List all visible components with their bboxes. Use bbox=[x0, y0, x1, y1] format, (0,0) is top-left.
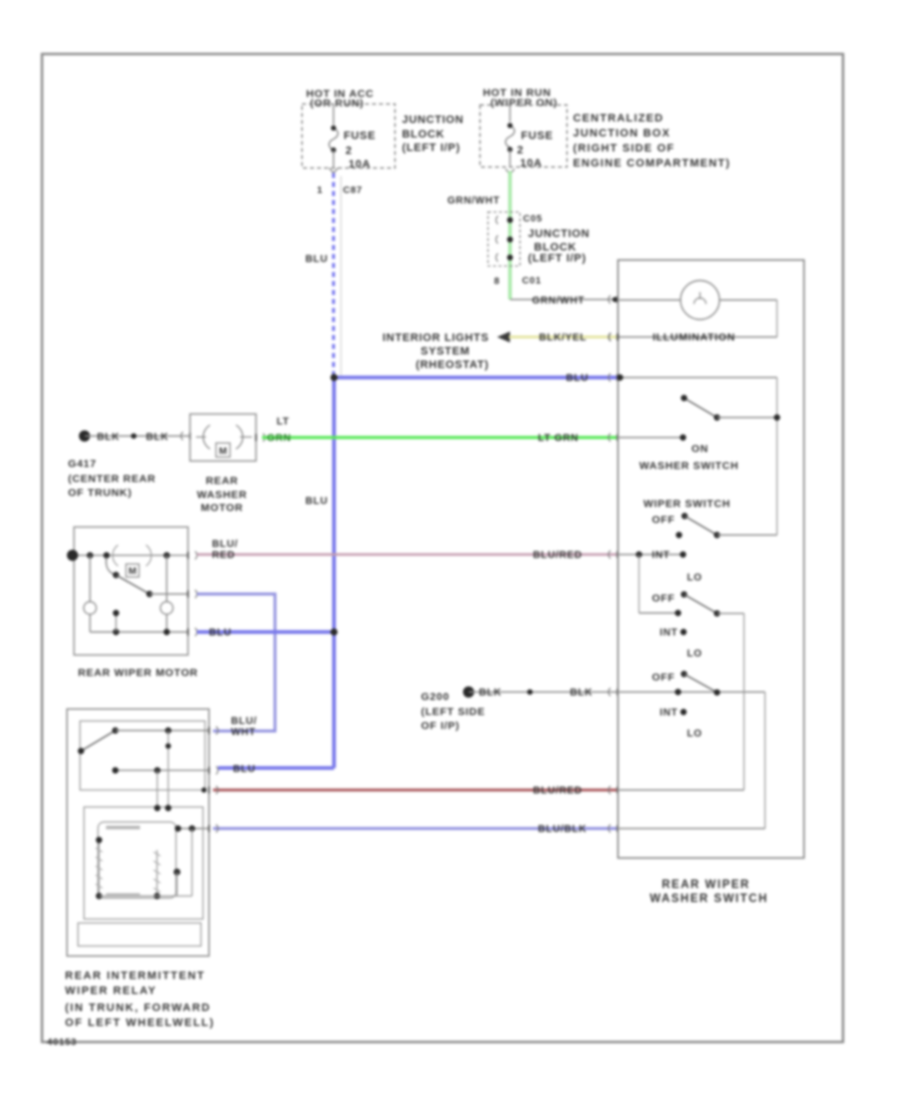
svg-text:BLK: BLK bbox=[570, 688, 593, 699]
svg-text:BLU/: BLU/ bbox=[212, 539, 238, 550]
svg-text:JUNCTION: JUNCTION bbox=[528, 228, 590, 240]
svg-text:1: 1 bbox=[317, 185, 323, 196]
svg-text:10A: 10A bbox=[520, 158, 542, 170]
svg-text:2: 2 bbox=[517, 145, 524, 157]
svg-text:GRN/WHT: GRN/WHT bbox=[532, 296, 585, 307]
svg-text:FUSE: FUSE bbox=[521, 130, 553, 142]
svg-text:REAR: REAR bbox=[206, 475, 239, 487]
svg-text:REAR WIPER: REAR WIPER bbox=[662, 879, 750, 891]
svg-text:OFF: OFF bbox=[652, 593, 675, 605]
svg-text:INTERIOR LIGHTS: INTERIOR LIGHTS bbox=[383, 332, 489, 344]
svg-text:(CENTER REAR: (CENTER REAR bbox=[68, 473, 156, 485]
svg-text:G417: G417 bbox=[68, 458, 97, 470]
svg-text:BLU: BLU bbox=[233, 764, 256, 775]
svg-text:LO: LO bbox=[687, 573, 702, 584]
svg-text:C05: C05 bbox=[523, 214, 543, 225]
svg-text:REAR WIPER MOTOR: REAR WIPER MOTOR bbox=[78, 667, 198, 679]
svg-text:WASHER: WASHER bbox=[197, 489, 247, 501]
svg-text:M: M bbox=[129, 566, 137, 577]
svg-text:ILLUMINATION: ILLUMINATION bbox=[653, 332, 736, 344]
svg-text:(RHEOSTAT): (RHEOSTAT) bbox=[416, 359, 489, 371]
svg-text:JUNCTION: JUNCTION bbox=[402, 114, 464, 126]
svg-text:CENTRALIZED: CENTRALIZED bbox=[573, 113, 664, 125]
svg-text:10A: 10A bbox=[349, 159, 371, 171]
svg-text:LO: LO bbox=[687, 729, 702, 740]
svg-text:WHT: WHT bbox=[231, 727, 256, 738]
svg-text:C87: C87 bbox=[343, 185, 363, 196]
svg-text:OFF: OFF bbox=[652, 514, 675, 526]
svg-text:INT: INT bbox=[652, 550, 670, 561]
svg-text:OF TRUNK): OF TRUNK) bbox=[68, 487, 132, 499]
svg-text:FUSE: FUSE bbox=[344, 130, 376, 142]
svg-text:OF LEFT WHEELWELL): OF LEFT WHEELWELL) bbox=[65, 1017, 215, 1029]
svg-text:(LEFT I/P): (LEFT I/P) bbox=[528, 253, 586, 265]
svg-text:8: 8 bbox=[494, 276, 500, 287]
svg-text:BLU/: BLU/ bbox=[231, 716, 257, 727]
svg-text:SYSTEM: SYSTEM bbox=[421, 346, 470, 358]
svg-text:(LEFT I/P): (LEFT I/P) bbox=[402, 142, 460, 154]
svg-text:REAR INTERMITTENT: REAR INTERMITTENT bbox=[65, 970, 205, 982]
svg-text:BLU/RED: BLU/RED bbox=[533, 786, 582, 797]
svg-text:BLU/RED: BLU/RED bbox=[533, 550, 582, 561]
svg-text:GRN/WHT: GRN/WHT bbox=[447, 196, 500, 207]
svg-text:(IN TRUNK, FORWARD: (IN TRUNK, FORWARD bbox=[65, 1002, 211, 1014]
svg-text:BLU/BLK: BLU/BLK bbox=[538, 824, 587, 835]
svg-text:INT: INT bbox=[660, 708, 678, 719]
svg-text:JUNCTION BOX: JUNCTION BOX bbox=[573, 128, 671, 140]
svg-text:MOTOR: MOTOR bbox=[201, 502, 243, 514]
svg-text:WIPER SWITCH: WIPER SWITCH bbox=[643, 498, 730, 510]
svg-text:WASHER SWITCH: WASHER SWITCH bbox=[650, 893, 769, 905]
svg-text:BLK: BLK bbox=[97, 432, 120, 443]
svg-text:OF I/P): OF I/P) bbox=[421, 720, 460, 732]
svg-text:2: 2 bbox=[346, 145, 353, 157]
svg-text:RED: RED bbox=[212, 550, 235, 561]
svg-text:BLU: BLU bbox=[209, 628, 232, 639]
svg-text:ENGINE COMPARTMENT): ENGINE COMPARTMENT) bbox=[573, 158, 731, 170]
svg-text:BLK/YEL: BLK/YEL bbox=[539, 333, 587, 344]
svg-text:C01: C01 bbox=[522, 276, 542, 287]
svg-text:LO: LO bbox=[687, 649, 702, 660]
svg-text:WIPER RELAY: WIPER RELAY bbox=[65, 985, 157, 997]
svg-text:WASHER SWITCH: WASHER SWITCH bbox=[639, 460, 739, 472]
svg-text:40153: 40153 bbox=[47, 1037, 77, 1048]
svg-text:G200: G200 bbox=[421, 691, 450, 703]
svg-text:OFF: OFF bbox=[652, 672, 675, 684]
svg-text:BLU: BLU bbox=[305, 254, 328, 265]
svg-text:M: M bbox=[219, 446, 227, 457]
svg-text:(LEFT SIDE: (LEFT SIDE bbox=[421, 706, 485, 718]
svg-text:BLU: BLU bbox=[305, 496, 328, 507]
svg-text:LT GRN: LT GRN bbox=[538, 433, 579, 444]
svg-text:BLK: BLK bbox=[146, 432, 169, 443]
svg-text:GRN: GRN bbox=[267, 433, 291, 444]
svg-text:BLK: BLK bbox=[479, 688, 502, 699]
svg-text:BLU: BLU bbox=[566, 373, 589, 384]
svg-text:ON: ON bbox=[691, 443, 708, 455]
svg-text:(WIPER ON): (WIPER ON) bbox=[490, 97, 557, 109]
svg-text:(RIGHT SIDE OF: (RIGHT SIDE OF bbox=[573, 143, 675, 155]
svg-text:INT: INT bbox=[660, 628, 678, 639]
svg-text:LT: LT bbox=[277, 417, 290, 428]
svg-text:BLOCK: BLOCK bbox=[402, 129, 445, 141]
